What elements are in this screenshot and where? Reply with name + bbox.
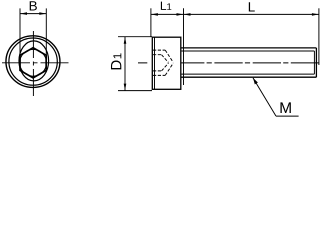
B extension line right	[45, 8, 47, 55]
D1 extension line bottom	[118, 90, 152, 92]
head chamfer line	[154, 37, 156, 89]
thread minor top	[182, 50, 315, 52]
label L	[249, 2, 255, 11]
B extension line left	[19, 8, 21, 55]
B dimension arrows	[20, 12, 27, 15]
L1 extension line	[150, 8, 152, 36]
label B	[30, 1, 37, 10]
socket inner cone lower	[162, 63, 169, 71]
shank major bottom	[181, 76, 317, 78]
L1 dimension line	[151, 13, 184, 15]
tip chamfer line	[313, 51, 315, 74]
D1 extension line top	[118, 36, 152, 38]
hex socket hidden line bottom outer	[153, 74, 165, 76]
L1 dimension arrows	[151, 13, 158, 16]
socket inner cone upper	[162, 55, 169, 63]
B dimension line	[20, 13, 46, 15]
socket bottom cone lower	[165, 63, 173, 75]
socket chamfer circle (inscribed)	[20, 49, 47, 76]
hex socket hexagon	[20, 48, 46, 78]
hex socket hidden line top outer	[153, 49, 165, 51]
socket entry chamfer ellipse	[19, 41, 49, 81]
head chamfer circle	[9, 38, 57, 85]
hex socket hidden line bottom inner	[153, 70, 162, 72]
hex socket hidden line top inner	[153, 54, 162, 56]
vertical centerline	[32, 31, 34, 97]
D1 dimension arrows	[124, 37, 127, 44]
L dimension arrows	[184, 13, 191, 16]
L extension line right	[318, 8, 320, 65]
M leader line	[253, 78, 276, 116]
socket bottom cone upper	[165, 50, 173, 62]
shank end face	[315, 48, 317, 77]
head outer circle	[6, 36, 60, 88]
thread start line / shared extension	[183, 8, 185, 85]
D1 dimension line	[124, 37, 126, 91]
label L1 (L)	[161, 2, 166, 10]
head rectangle	[152, 37, 181, 89]
L dimension line	[184, 13, 319, 15]
thread minor bottom	[182, 73, 315, 75]
horizontal centerline	[2, 62, 69, 64]
screw axis centerline	[138, 62, 319, 64]
M leader arrowhead	[253, 78, 258, 85]
M leader underline	[276, 115, 299, 117]
label M	[280, 102, 290, 113]
label L1 (1)	[167, 3, 171, 10]
shank major top	[181, 47, 317, 49]
label D1 (rotated)	[111, 53, 121, 69]
